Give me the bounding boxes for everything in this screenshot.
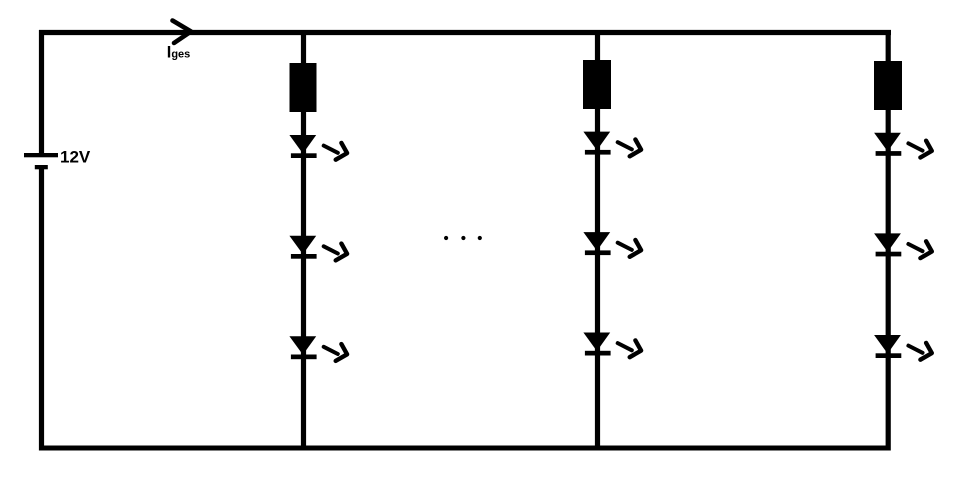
wire top bus xyxy=(39,30,891,35)
LED D1 xyxy=(289,135,347,160)
LED D3 xyxy=(289,336,347,361)
wire branch 1 vertical xyxy=(301,31,306,451)
resistor R3 xyxy=(874,61,902,110)
LED D9 xyxy=(874,335,932,360)
LED D8 xyxy=(874,233,932,258)
battery V1 negative plate xyxy=(35,165,48,169)
svg-text:12V: 12V xyxy=(60,148,91,167)
wire left upper (battery + to top bus) xyxy=(39,30,44,155)
resistor R1 xyxy=(290,63,317,112)
wire bottom bus xyxy=(39,446,891,451)
LED D2 xyxy=(289,236,347,261)
wire left lower (battery - to bottom bus) xyxy=(39,167,44,451)
LED D6 xyxy=(583,333,641,358)
svg-text:Iges: Iges xyxy=(167,44,191,62)
node ellipsis (more branches) xyxy=(444,236,482,240)
resistor R2 xyxy=(583,60,611,109)
wire branch 2 vertical xyxy=(595,31,600,451)
LED D7 xyxy=(874,133,932,158)
battery V1 positive plate xyxy=(24,153,58,157)
wire branch 3 vertical (right edge) xyxy=(886,30,891,451)
LED D5 xyxy=(583,232,641,257)
current arrow Iges xyxy=(173,21,192,44)
LED D4 xyxy=(583,132,641,157)
